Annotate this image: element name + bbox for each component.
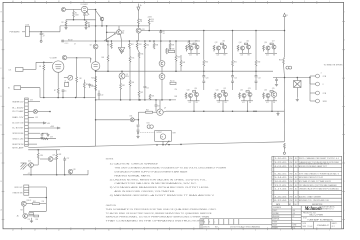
svg-text:R30: R30 — [205, 61, 208, 63]
meter box — [155, 131, 172, 142]
junction DS2 end — [49, 111, 51, 113]
svg-text:D3: D3 — [67, 82, 69, 84]
junction rail B R10 — [148, 30, 150, 32]
svg-text:R41: R41 — [122, 85, 125, 87]
svg-text:B: B — [1, 181, 2, 183]
junction F b — [57, 97, 59, 99]
svg-text:V2: V2 — [90, 58, 92, 60]
svg-text:4-20-66: 4-20-66 — [274, 196, 286, 198]
wire right trunk mid — [284, 64, 285, 78]
svg-text:11: 11 — [83, 230, 85, 232]
resistor R28 — [56, 150, 58, 154]
svg-text:C10: C10 — [101, 94, 104, 96]
capacitor C1 — [40, 32, 42, 33]
svg-text:JD: JD — [295, 158, 298, 160]
svg-text:C4 .1: C4 .1 — [65, 43, 69, 45]
wire col x108 lower — [107, 61, 109, 71]
wire q29 drop — [23, 206, 25, 213]
terminal strip TS1 — [25, 98, 29, 146]
svg-text:Q14: Q14 — [239, 42, 242, 44]
wire top bus — [60, 25, 88, 27]
svg-text:F: F — [1, 68, 2, 70]
svg-text:0.22: 0.22 — [189, 54, 192, 56]
diode D3 — [68, 75, 73, 80]
resistor Q22R — [239, 93, 241, 98]
lamp DS3 — [130, 118, 134, 122]
svg-text:R16: R16 — [141, 54, 144, 56]
wire gnd to Q26 — [27, 164, 29, 166]
svg-text:F1: F1 — [286, 15, 288, 17]
svg-text:E: E — [1, 96, 2, 98]
resistor R1 — [73, 10, 75, 11]
svg-text:R22: R22 — [91, 78, 94, 80]
capacitor C8 — [160, 30, 162, 33]
wire ground rail F — [40, 97, 96, 99]
svg-text:THIS UNIT CONTAINS UNGROUNDED: THIS UNIT CONTAINS UNGROUNDED VOLTAGES U… — [114, 167, 226, 170]
wire TS1 w6 — [28, 132, 40, 134]
resistor Q24R — [263, 93, 265, 98]
wire col R30 to rail C — [203, 66, 205, 71]
ground under R2 — [65, 27, 67, 28]
capacitor C4 — [61, 40, 63, 43]
wiper arrow — [104, 34, 115, 41]
transistor Q8 — [62, 55, 66, 59]
resistor Q10R — [186, 45, 188, 50]
junction rail H Q7 — [139, 99, 141, 101]
svg-text:Q18: Q18 — [187, 89, 190, 91]
svg-text:2) UNLESS NOTED, RESISTOR VALU: 2) UNLESS NOTED, RESISTOR VALUES IN OHMS… — [110, 178, 208, 181]
junction rail E end — [138, 119, 140, 121]
svg-text:DS3: DS3 — [130, 116, 133, 118]
svg-text:R28: R28 — [59, 154, 62, 156]
svg-text:6.3V: 6.3V — [50, 137, 53, 139]
transistor Q3 — [121, 71, 123, 73]
revision header band — [272, 201, 342, 203]
svg-text:Q13: Q13 — [222, 41, 225, 43]
resistor Q18R — [185, 93, 187, 98]
resistor R35 — [29, 213, 34, 215]
svg-text:Q28: Q28 — [73, 169, 76, 171]
wire top bus right — [90, 25, 149, 27]
svg-text:Q3: Q3 — [126, 74, 128, 76]
svg-text:+460V: +460V — [147, 16, 151, 18]
wire col R31 to rail C — [232, 66, 234, 71]
junction Q4 emitter — [101, 25, 103, 27]
svg-text:LVL: LVL — [9, 69, 12, 71]
junction rail A r38 — [153, 40, 155, 42]
wire col R32 to rail C — [255, 66, 257, 71]
svg-text:DWN: DWN — [303, 223, 306, 225]
wire V1 plate right — [64, 77, 68, 79]
connector J1 — [25, 26, 29, 36]
junction top bus at trunk — [95, 25, 97, 27]
svg-text:-52: -52 — [28, 173, 30, 175]
wire cluster drop x194 — [193, 101, 195, 111]
svg-text:R11: R11 — [107, 44, 110, 46]
transistor Q22 — [242, 94, 246, 98]
svg-text:V1 12BH7: V1 12BH7 — [50, 57, 57, 59]
wire TS1 w9 pair a — [28, 146, 95, 147]
wire right trunk lower — [283, 78, 285, 142]
svg-text:Q27: Q27 — [52, 155, 55, 157]
transistor Q7 — [157, 109, 163, 115]
wire Q22 emitter bus — [241, 100, 253, 102]
svg-text:R2: R2 — [62, 22, 64, 24]
junction trunk railE — [95, 119, 97, 121]
svg-text:D: D — [1, 125, 2, 127]
svg-text:JD: JD — [295, 162, 298, 164]
resistor Q25R — [270, 91, 273, 93]
svg-text:8: 8 — [323, 84, 324, 86]
potentiometer R5 — [15, 68, 23, 72]
capacitor C15 — [144, 85, 147, 87]
svg-text:DS1: DS1 — [147, 123, 150, 125]
wire grid bus — [66, 19, 96, 21]
resistor R42 — [170, 82, 176, 84]
svg-text:OUTPUT: OUTPUT — [156, 132, 162, 134]
junction right trunk rail B — [284, 30, 286, 32]
svg-text:Q20: Q20 — [216, 89, 219, 91]
svg-text:G: G — [343, 40, 344, 42]
resistor Q23R — [246, 91, 249, 93]
svg-text:F: F — [343, 68, 344, 70]
svg-text:C6046-2: C6046-2 — [317, 225, 330, 227]
svg-text:JD: JD — [295, 189, 298, 191]
capacitor C10 — [98, 93, 101, 95]
svg-text:Q19: Q19 — [194, 88, 197, 90]
svg-text:+85V: +85V — [47, 123, 50, 125]
transistor Q4 — [100, 17, 104, 21]
transistor Q21 — [224, 93, 228, 97]
svg-text:6-30-65: 6-30-65 — [274, 173, 286, 175]
junction rail B col1 — [203, 30, 205, 32]
svg-text:JD: JD — [295, 177, 298, 179]
svg-text:Q25: Q25 — [272, 88, 275, 90]
junction rail H x170 — [169, 99, 171, 101]
svg-text:0.22: 0.22 — [266, 54, 269, 56]
svg-text:R48: R48 — [175, 96, 178, 98]
svg-text:MC7: MC7 — [215, 227, 218, 229]
svg-text:4-01-65: 4-01-65 — [274, 166, 286, 168]
junction rail H C9 — [155, 99, 157, 101]
lamp DS2 — [33, 109, 37, 113]
svg-text:R4: R4 — [39, 66, 41, 68]
svg-text:12-9-64: 12-9-64 — [308, 226, 313, 228]
wire TS1 w6b — [42, 132, 48, 134]
tube V1 — [53, 61, 64, 72]
svg-text:C7: C7 — [74, 44, 76, 46]
wire tb2 link — [309, 93, 311, 101]
wire rail H — [96, 99, 176, 101]
wire Q18 emitter bus — [188, 100, 200, 102]
capacitor C13 — [276, 78, 278, 80]
wire ts2 w2 — [29, 197, 47, 199]
junction bias col — [137, 132, 139, 134]
svg-text:Q21: Q21 — [223, 88, 226, 90]
transistor Q5 — [159, 61, 165, 67]
revision table grid — [272, 156, 342, 205]
resistor R13 — [136, 41, 138, 43]
wire pot to grid — [23, 68, 36, 70]
svg-text:R46: R46 — [132, 82, 135, 84]
svg-text:1/2: 1/2 — [292, 216, 294, 218]
wire chain x139 lower — [138, 58, 140, 91]
wire spk column — [309, 78, 311, 94]
resistor R17 — [188, 41, 190, 43]
junction V1 grid — [43, 62, 45, 64]
wire cluster drop x247.5 — [247, 101, 249, 111]
wire TS1 w7 — [28, 138, 56, 140]
ground bias col — [137, 135, 139, 136]
svg-text:10: 10 — [108, 230, 110, 232]
wire r34 right — [40, 203, 47, 205]
svg-text:0.22: 0.22 — [189, 102, 192, 104]
capacitor C21 — [232, 71, 234, 75]
svg-text:11-2-65: 11-2-65 — [274, 185, 286, 187]
junction rail A trunk — [95, 40, 97, 42]
resistor R39 — [169, 41, 171, 43]
svg-text:Q15: Q15 — [246, 41, 249, 43]
wire cluster drop x272 — [271, 101, 273, 111]
svg-text:Q22: Q22 — [240, 89, 243, 91]
svg-text:Q24: Q24 — [264, 89, 267, 91]
svg-text:R21: R21 — [152, 95, 155, 97]
junction rail C x176 — [175, 70, 177, 72]
svg-text:1/64: 1/64 — [292, 210, 295, 212]
resistor Q17R — [270, 43, 273, 45]
wire Q5 to Q6 — [161, 66, 163, 73]
transistor Q15 — [247, 45, 251, 49]
wire h211 — [29, 210, 46, 212]
junction feedback right — [168, 144, 170, 146]
wire tb1 link — [309, 76, 311, 84]
transistor Q19 — [195, 93, 199, 97]
wire column x176 lower — [175, 61, 177, 71]
junction R26 top — [37, 149, 39, 151]
resistor R49 — [107, 55, 109, 61]
transistor Q1 — [62, 8, 66, 12]
wire chain x139 foot — [138, 97, 140, 100]
svg-text:R12: R12 — [131, 44, 134, 46]
svg-text:OF 1: OF 1 — [332, 226, 335, 228]
resistor R15 — [129, 56, 131, 62]
junction rail D x254 — [253, 110, 255, 112]
svg-text:B: B — [209, 222, 210, 224]
junction Q26 foot — [30, 174, 32, 176]
svg-text:R13: R13 — [139, 44, 142, 46]
terminal TB2-2 — [310, 100, 316, 102]
capacitor C22 — [255, 71, 257, 75]
junction rail A r1 — [111, 40, 113, 42]
junction F c — [62, 97, 64, 99]
ground tap rail D — [277, 111, 279, 112]
junction rail C col3 — [255, 70, 257, 72]
junction top bus at Q2 column — [106, 25, 108, 27]
terminal E1 — [40, 40, 42, 42]
wire Q20 emitter bus — [217, 100, 229, 102]
resistor R25 — [83, 82, 85, 88]
resistor R44 — [146, 111, 153, 113]
wire Q6 emitter — [161, 79, 163, 100]
transistor Q14 — [241, 46, 245, 50]
hatch ground GND2 — [121, 41, 123, 48]
svg-text:JD: JD — [295, 166, 298, 168]
junction rail B C8 — [160, 30, 162, 32]
svg-text:R42 10: R42 10 — [170, 80, 175, 82]
svg-text:C5: C5 — [64, 90, 66, 92]
capacitor C3 — [84, 13, 86, 14]
wire Q16 emitter bus — [265, 52, 277, 54]
resistor R21 — [149, 94, 151, 100]
wire TS1 w9 pair b — [28, 149, 60, 151]
resistor Q13R — [221, 43, 224, 45]
svg-text:Q23: Q23 — [248, 88, 251, 90]
resistor R20 — [175, 55, 177, 61]
svg-text:R1: R1 — [75, 13, 77, 15]
transistor Q28 — [68, 169, 72, 173]
terminal TB1-1 — [310, 75, 316, 77]
resistor R4 — [43, 62, 45, 64]
svg-text:C: C — [343, 153, 344, 155]
resistor Q20R — [214, 93, 216, 98]
svg-text:H: H — [343, 12, 344, 14]
junction F a — [43, 97, 45, 99]
junction rail H trunk — [95, 99, 97, 101]
svg-text:12: 12 — [58, 1, 60, 3]
junction top bus at R9 column — [138, 25, 140, 27]
svg-text:0.22: 0.22 — [218, 102, 221, 104]
transistor Q16 — [266, 46, 270, 50]
svg-text:R19 330: R19 330 — [169, 49, 175, 51]
svg-text:THAT CONTAINED IN THE OPERATIN: THAT CONTAINED IN THE OPERATING INSTRUCT… — [106, 220, 205, 223]
wire rail E right — [134, 119, 138, 121]
svg-text:TO REMOTE SPKRS: TO REMOTE SPKRS — [324, 65, 344, 67]
wire Q2 emitter — [121, 34, 122, 41]
arrow into V3 — [86, 11, 89, 15]
resistor R19 — [169, 50, 175, 52]
svg-text:R26: R26 — [40, 155, 43, 157]
svg-text:NONE: NONE — [292, 224, 296, 226]
svg-text:Q9: Q9 — [90, 44, 92, 46]
transistor Q24 — [266, 94, 270, 98]
transistor Q10 — [189, 46, 193, 50]
wire ts2 w1 — [29, 186, 47, 188]
junction bias bus b — [56, 174, 58, 176]
terminal E2 — [283, 152, 285, 154]
terminal TB2-1 — [310, 92, 316, 94]
svg-text:Q26: Q26 — [28, 160, 31, 162]
wire TS1 w2 — [28, 111, 33, 113]
junction rail A r39 — [169, 40, 171, 42]
svg-text:Q11: Q11 — [195, 41, 198, 43]
wire meter drop — [162, 141, 164, 144]
svg-text:REMOTE SW: REMOTE SW — [12, 144, 24, 146]
svg-text:9-14-65: 9-14-65 — [274, 177, 286, 179]
wire Q4 down — [101, 21, 103, 26]
svg-text:SHEET 1: SHEET 1 — [332, 223, 338, 225]
junction rail A Q2col — [106, 40, 108, 42]
junction rail D x194 — [193, 110, 195, 112]
svg-text:+460V: +460V — [50, 126, 54, 128]
svg-text:R49: R49 — [101, 57, 104, 59]
transistor Q17 — [272, 45, 276, 49]
junction spk rail b — [297, 77, 299, 79]
junction rail A r3 — [136, 40, 138, 42]
svg-text:Q7: Q7 — [164, 108, 166, 110]
svg-text:JD: JD — [295, 196, 298, 198]
svg-text:13: 13 — [34, 1, 36, 3]
wire pot2 — [21, 87, 40, 89]
svg-text:MTR: MTR — [173, 132, 176, 134]
wire TS1 w3 — [28, 116, 34, 118]
junction rail D x256.0 — [255, 110, 257, 112]
svg-text:Q31: Q31 — [142, 29, 145, 31]
wire TS1 w4 — [28, 122, 44, 124]
wire Q7 top — [159, 100, 161, 109]
svg-text:R3: R3 — [88, 22, 90, 24]
wire Q27 right — [53, 158, 57, 160]
ground under R3 — [85, 27, 87, 28]
wire Q2 collector — [118, 26, 120, 30]
wire rail B — [141, 30, 284, 32]
svg-text:6.3V: 6.3V — [30, 100, 33, 102]
svg-text:Q2: Q2 — [122, 30, 124, 32]
wire trunk top — [95, 10, 97, 62]
wire Q10 emitter bus — [188, 52, 200, 54]
svg-text:R8: R8 — [80, 78, 82, 80]
svg-text:R38: R38 — [155, 44, 158, 46]
junction rail H x139 — [138, 99, 140, 101]
svg-text:B+: B+ — [140, 5, 142, 7]
svg-text:H: H — [1, 12, 2, 14]
junction rail A r5 — [188, 40, 190, 42]
resistor R43 — [180, 55, 182, 60]
wire diag to Q4 — [96, 11, 101, 18]
transistor Q23 — [248, 93, 252, 97]
potentiometer R6 — [14, 86, 21, 90]
adjust arrow — [165, 141, 169, 145]
svg-text:0.22: 0.22 — [217, 54, 220, 56]
resistor R36 — [34, 215, 39, 217]
resistor R7 — [57, 88, 59, 95]
lamp DS1 — [147, 125, 150, 128]
resistor R11 — [110, 41, 112, 43]
wire plate bus to V2 — [90, 58, 92, 63]
junction feedback left — [156, 144, 158, 146]
wire DS2 right — [38, 111, 51, 113]
svg-text:R31: R31 — [234, 61, 237, 63]
svg-text:R47: R47 — [141, 92, 144, 94]
wire q30 h — [28, 215, 34, 217]
svg-text:0.22: 0.22 — [242, 102, 245, 104]
wire Q2 base — [107, 31, 117, 33]
svg-text:C16: C16 — [175, 89, 178, 91]
chassis ground hatch — [21, 163, 27, 170]
junction rail H Q6 — [161, 99, 163, 101]
box Z1 — [65, 83, 69, 87]
svg-text:Q17: Q17 — [272, 41, 275, 43]
junction ts2 — [46, 197, 48, 199]
wire TS1 w1 — [28, 101, 40, 103]
transistor Q9 — [93, 44, 98, 49]
svg-text:AND IN RECORD ON/OFF, VOLTMETE: AND IN RECORD ON/OFF, VOLTMETER. — [114, 190, 175, 193]
wire up to bus — [59, 26, 61, 32]
resistor R47 — [138, 91, 140, 98]
dashed link — [138, 132, 155, 134]
wire rail A — [61, 40, 200, 42]
svg-text:CAUTION:: CAUTION: — [106, 204, 117, 207]
capacitor C14 — [41, 133, 44, 135]
